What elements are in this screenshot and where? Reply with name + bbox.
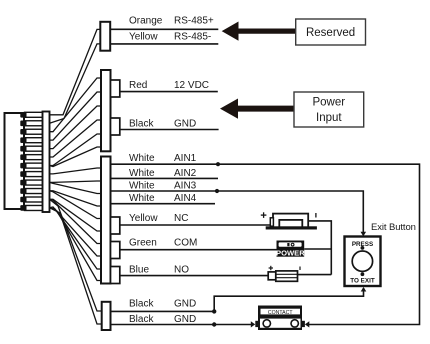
svg-text:CONTACT: CONTACT	[268, 310, 294, 316]
svg-text:NC: NC	[174, 213, 188, 224]
svg-text:Black: Black	[129, 314, 154, 325]
svg-text:White: White	[129, 153, 155, 164]
svg-text:AIN4: AIN4	[174, 193, 197, 204]
svg-text:White: White	[129, 193, 155, 204]
svg-text:TO EXIT: TO EXIT	[350, 277, 375, 284]
svg-text:12 VDC: 12 VDC	[174, 80, 209, 91]
svg-text:Blue: Blue	[129, 265, 149, 276]
svg-text:Black: Black	[129, 118, 154, 129]
svg-text:GND: GND	[174, 314, 196, 325]
svg-text:Red: Red	[129, 80, 147, 91]
svg-text:Exit Button: Exit Button	[371, 222, 416, 233]
svg-text:Black: Black	[129, 299, 154, 310]
svg-text:White: White	[129, 181, 155, 192]
svg-text:AIN1: AIN1	[174, 153, 197, 164]
svg-text:Power: Power	[312, 97, 345, 109]
svg-text:Yellow: Yellow	[129, 213, 158, 224]
svg-text:AIN2: AIN2	[174, 168, 197, 179]
svg-text:NO: NO	[174, 265, 189, 276]
svg-text:POWER: POWER	[276, 248, 305, 257]
svg-text:Green: Green	[129, 238, 157, 249]
svg-text:Yellow: Yellow	[129, 32, 158, 43]
svg-text:GND: GND	[174, 118, 196, 129]
svg-text:Reserved: Reserved	[306, 27, 355, 39]
svg-text:RS-485-: RS-485-	[174, 32, 211, 43]
svg-text:GND: GND	[174, 299, 196, 310]
svg-text:Orange: Orange	[129, 16, 163, 27]
svg-text:White: White	[129, 168, 155, 179]
svg-text:RS-485+: RS-485+	[174, 16, 214, 27]
svg-text:AIN3: AIN3	[174, 181, 197, 192]
svg-text:COM: COM	[174, 238, 197, 249]
svg-text:Input: Input	[316, 112, 342, 124]
